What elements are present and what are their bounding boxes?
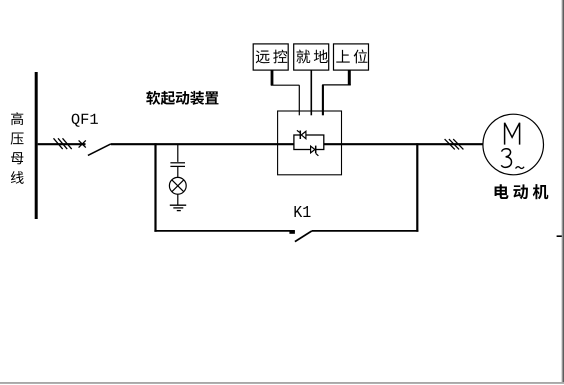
wire: bypass bottom right segment	[312, 230, 419, 232]
contact K1 fixed contact tick	[289, 231, 295, 234]
wire: 就地 to soft starter	[310, 70, 312, 115]
three-phase slashes at motor	[445, 139, 464, 149]
contact K1 blade	[295, 231, 312, 242]
control box 远控	[253, 44, 288, 70]
label 高压母线 (HV bus)	[11, 112, 24, 184]
wire: bypass right vertical	[416, 143, 418, 232]
breaker QF1 contact X	[79, 140, 86, 147]
wire: main line QF1 to soft starter	[111, 143, 295, 145]
wire: capacitor to lamp	[177, 167, 179, 178]
soft starter U1 outer box	[278, 111, 342, 175]
breaker QF1 drawout slashes	[54, 138, 72, 149]
control box 就地	[294, 44, 329, 70]
control box 上位	[334, 44, 369, 70]
bus bar 高压母线	[35, 72, 38, 219]
label 电动机	[495, 184, 549, 199]
thyristor module inner box	[294, 135, 324, 150]
motor M1 digit 3	[501, 149, 511, 168]
wire: soft starter to motor	[324, 143, 483, 145]
wire: bus to breaker QF1	[38, 143, 86, 145]
label K1	[294, 206, 310, 217]
wire: bypass left vertical	[154, 143, 156, 232]
lamp HL1	[169, 177, 186, 194]
thyristor V2 (bottom, cathode right)	[311, 146, 319, 156]
motor M1 tilde	[516, 167, 525, 169]
label QF1	[72, 114, 98, 127]
wire: bypass bottom left segment	[154, 230, 295, 232]
breaker QF1 blade	[88, 144, 111, 156]
motor M1 letter M	[505, 123, 520, 145]
wire: 远控 to soft starter	[271, 70, 300, 115]
label 软起动装置 (soft starter)	[146, 91, 218, 105]
ground	[170, 205, 186, 210]
wire: lamp to ground	[177, 194, 179, 205]
wire: 上位 to soft starter	[322, 70, 351, 115]
motor M1 circle	[483, 114, 544, 175]
capacitor C1 plates	[170, 163, 185, 167]
wire: capacitor branch drop	[177, 145, 179, 162]
thyristor V1 (top, cathode left)	[297, 130, 306, 139]
